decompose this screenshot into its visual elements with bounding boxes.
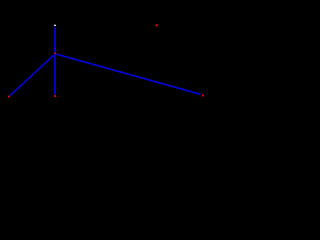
node bottom (red marker): [54, 95, 56, 97]
node isolated upper-right (red marker): [155, 24, 157, 26]
node top (white marker): [54, 25, 56, 26]
wire segment left-down from junction to left node: [10, 55, 54, 96]
node left (red marker): [8, 95, 10, 97]
node right (red marker): [202, 95, 204, 97]
wire segment up from junction to top node: [54, 27, 56, 52]
node junction (red marker): [54, 52, 56, 54]
wire segment right-down from junction to right node: [56, 54, 200, 94]
wire segment down from junction to bottom node: [54, 54, 56, 94]
